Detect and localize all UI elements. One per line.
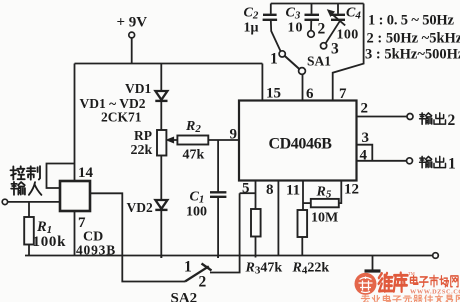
- switch SA2 arm: [185, 266, 209, 281]
- ground bar: [365, 269, 381, 272]
- wire pin2 to output2: [357, 116, 408, 118]
- +9V supply terminal: [129, 32, 135, 38]
- svg-text:3 : 5kHz~500Hz: 3 : 5kHz~500Hz: [365, 47, 460, 63]
- watermark logo seal: [355, 273, 377, 295]
- wire C2 top stub: [270, 4, 272, 14]
- wiper arrow RP: [167, 137, 178, 143]
- svg-text:10M: 10M: [311, 211, 338, 226]
- svg-text:1: 1: [448, 156, 456, 173]
- wire +9V stub: [131, 38, 133, 64]
- switch SA2 blade tick: [202, 264, 212, 271]
- output1 terminal: [407, 158, 413, 164]
- wire SA2 contact 2 to pin5 branch: [210, 193, 240, 272]
- wire gate pin7 down: [74, 211, 76, 256]
- contact 2 SA1: [308, 31, 315, 38]
- wire left vertical to pin14: [74, 64, 76, 182]
- svg-text:2: 2: [448, 112, 456, 129]
- svg-text:WWW.DZSC.COM: WWW.DZSC.COM: [410, 288, 460, 295]
- svg-text:14: 14: [78, 165, 94, 181]
- svg-text:11: 11: [286, 183, 300, 199]
- svg-text:VD2: VD2: [127, 200, 153, 215]
- svg-text:8: 8: [266, 182, 274, 198]
- wire pin4 to output1: [357, 160, 407, 162]
- potentiometer RP 22k: [157, 130, 166, 156]
- svg-text:1 : 0. 5 ~ 50Hz: 1 : 0. 5 ~ 50Hz: [368, 13, 455, 29]
- capacitor C4 100 variable: [331, 15, 345, 20]
- svg-text:15: 15: [266, 86, 281, 102]
- wire pin5 stub: [255, 181, 257, 210]
- capacitor C2 1u: [263, 15, 278, 20]
- resistor R3 47k: [251, 209, 261, 237]
- svg-text:12: 12: [344, 182, 359, 198]
- svg-text:6: 6: [306, 86, 314, 102]
- svg-text:100: 100: [186, 205, 207, 220]
- svg-text:+ 9V: + 9V: [117, 15, 148, 31]
- wire pin6: [302, 75, 304, 101]
- wire R2 to pin9: [208, 139, 239, 141]
- output2 terminal: [407, 114, 413, 120]
- arrow C4 trimmer: [328, 10, 346, 26]
- wire C1 bottom: [217, 197, 219, 258]
- svg-text:4093B: 4093B: [76, 243, 116, 258]
- ground stub: [372, 256, 374, 270]
- svg-text:9: 9: [230, 127, 238, 143]
- svg-text:22k: 22k: [131, 143, 153, 158]
- pole SA1: [299, 68, 306, 75]
- wire pin3 pin4 loop: [357, 145, 373, 161]
- svg-text:47k: 47k: [183, 148, 205, 163]
- svg-text:2 : 50Hz ~5kHz: 2 : 50Hz ~5kHz: [367, 31, 460, 47]
- wire R1 top stub: [28, 202, 30, 217]
- svg-text:2: 2: [199, 274, 207, 291]
- svg-text:RP: RP: [134, 128, 152, 143]
- wire C4 top stub: [337, 4, 339, 14]
- wire R4 bottom: [301, 237, 303, 256]
- right rail terminal: [433, 253, 439, 259]
- diode VD1: [155, 91, 167, 101]
- svg-text:SA1: SA1: [307, 54, 331, 69]
- svg-text:SA2: SA2: [171, 291, 198, 302]
- svg-text:1: 1: [270, 51, 278, 68]
- svg-text:7: 7: [339, 86, 347, 102]
- watermark wei ku: [379, 273, 408, 292]
- svg-text:2CK71: 2CK71: [101, 110, 142, 125]
- wire top capacitor bus: [271, 3, 364, 5]
- wire R5 right to pin12: [339, 181, 342, 204]
- wire R1 bottom stub: [28, 245, 30, 256]
- wire pin8 down: [277, 181, 279, 256]
- junction tick VD2 rail: [160, 256, 162, 259]
- label control input CJK: [11, 166, 42, 195]
- svg-text:100: 100: [337, 28, 359, 43]
- svg-text:2: 2: [318, 21, 326, 38]
- wire C4 to contact 3: [326, 21, 340, 43]
- wire VD1 to RP: [160, 101, 162, 130]
- capacitor C3 10: [305, 15, 320, 20]
- resistor R2 47k: [177, 136, 208, 145]
- wire SA2 pole branch: [122, 256, 185, 282]
- wire top rail: [75, 63, 263, 65]
- label output2 CJK: [420, 113, 446, 124]
- wire pin7 to top bus: [333, 4, 364, 101]
- IC U1 CD4046B box: [239, 101, 357, 181]
- gate U2 CD4093B box: [60, 181, 90, 211]
- wire feedback loop U1: [47, 164, 75, 189]
- wire pin11 stub: [302, 181, 304, 211]
- svg-text:CD4046B: CD4046B: [269, 136, 333, 153]
- wire R5 left: [303, 202, 311, 204]
- watermark dianzishichangwang: [410, 275, 458, 287]
- svg-text:VD1: VD1: [125, 81, 151, 96]
- svg-text:10: 10: [288, 21, 304, 36]
- wire R3 bottom: [255, 237, 257, 258]
- wire C1 top stub: [217, 140, 219, 192]
- wire C3 top stub: [311, 4, 313, 14]
- svg-text:1μ: 1μ: [244, 21, 259, 36]
- label output1 CJK: [420, 156, 446, 167]
- svg-text:100k: 100k: [33, 234, 67, 250]
- wire VD2 to rail: [160, 210, 162, 258]
- svg-text:3: 3: [331, 41, 339, 58]
- wire bottom rail: [25, 255, 433, 257]
- switch SA1 arm: [285, 56, 300, 69]
- wire pin15: [261, 64, 263, 101]
- svg-text:3: 3: [362, 130, 370, 146]
- resistor R4 22k: [298, 210, 308, 237]
- watermark slogan: [361, 295, 460, 302]
- svg-text:R347k: R347k: [245, 261, 283, 277]
- wire C3 to contact 2: [310, 20, 312, 31]
- junction tick C1 rail: [217, 256, 219, 259]
- wire pin5 jog: [240, 192, 256, 194]
- diode VD2: [155, 200, 167, 210]
- resistor R1 100k: [24, 217, 34, 245]
- wire VD chain top: [160, 64, 162, 92]
- wire C2 to contact 1: [271, 20, 281, 52]
- svg-text:2: 2: [361, 101, 369, 117]
- svg-text:1: 1: [184, 259, 192, 276]
- resistor R5 10M: [311, 199, 339, 207]
- wire input to gate: [8, 201, 60, 203]
- contact 1 SA1: [279, 51, 285, 57]
- contact 3 SA1: [321, 43, 327, 49]
- svg-text:R422k: R422k: [292, 261, 330, 277]
- capacitor C1 100: [210, 192, 226, 197]
- svg-text:4: 4: [360, 148, 368, 164]
- control input terminal: [2, 199, 7, 204]
- wire RP to VD2: [160, 156, 162, 201]
- wire gate output: [90, 193, 122, 255]
- svg-text:5: 5: [242, 181, 250, 197]
